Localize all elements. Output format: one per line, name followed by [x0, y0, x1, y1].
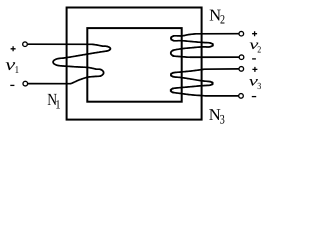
svg-text:3: 3 [257, 82, 261, 92]
svg-text:2: 2 [257, 45, 261, 55]
svg-text:1: 1 [15, 65, 19, 76]
svg-text:3: 3 [220, 111, 225, 126]
svg-text:2: 2 [220, 13, 225, 27]
svg-text:1: 1 [55, 97, 60, 111]
